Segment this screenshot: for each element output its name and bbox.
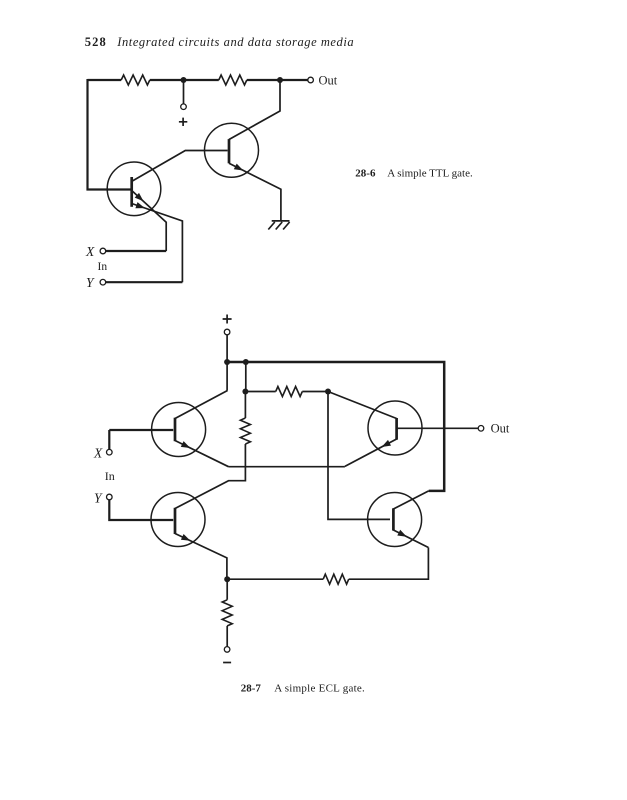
svg-text:X: X — [93, 445, 103, 460]
svg-text:A simple ECL gate.: A simple ECL gate. — [274, 682, 365, 694]
svg-text:In: In — [98, 261, 108, 273]
svg-text:Integrated circuits and data s: Integrated circuits and data storage med… — [116, 35, 354, 49]
svg-text:Out: Out — [491, 422, 510, 436]
svg-text:28-6: 28-6 — [355, 168, 376, 180]
svg-text:528: 528 — [85, 35, 107, 49]
svg-text:X: X — [85, 244, 95, 259]
svg-text:Y: Y — [94, 490, 103, 505]
svg-text:Out: Out — [319, 73, 338, 87]
svg-text:A simple TTL gate.: A simple TTL gate. — [387, 168, 473, 180]
svg-text:Y: Y — [86, 275, 95, 290]
svg-text:In: In — [105, 469, 115, 483]
svg-text:28-7: 28-7 — [241, 682, 262, 694]
